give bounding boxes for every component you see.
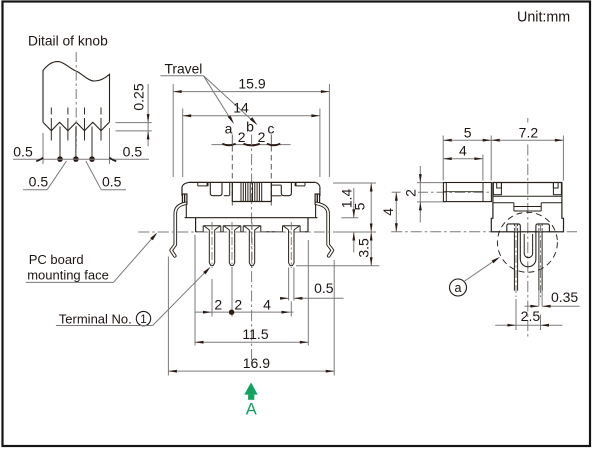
side view knob projection stubs	[417, 182, 446, 184]
svg-text:mounting face: mounting face	[27, 268, 109, 283]
travel position verticals	[231, 135, 233, 145]
detail balloon a	[450, 279, 467, 296]
cover top-right chamfer	[315, 182, 320, 186]
svg-text:0.5: 0.5	[29, 174, 49, 190]
side view dimension 7.2	[562, 136, 564, 181]
svg-text:2: 2	[214, 297, 222, 313]
svg-text:Unit:mm: Unit:mm	[517, 10, 570, 26]
dimension 11.5	[194, 235, 196, 346]
knob block (front view)	[231, 182, 233, 201]
svg-text:Ditail of knob: Ditail of knob	[28, 34, 108, 49]
side view body outline (stepped sides)	[491, 183, 563, 232]
knob detail: hidden tooth lines	[50, 108, 52, 115]
cover dimple tab right	[296, 185, 305, 187]
cover bottom edge	[185, 217, 318, 219]
knob serration stripes	[240, 183, 242, 201]
dimension 3.5	[296, 265, 379, 267]
cover left clip tab	[182, 194, 187, 204]
terminal 4 side extension lines (0.5 width)	[288, 268, 290, 301]
svg-text:0.25: 0.25	[131, 83, 147, 110]
side view knob bar	[443, 183, 491, 202]
right mounting leg	[316, 203, 332, 256]
knob detail: serrated bottom edge (zigzag)	[43, 122, 109, 130]
knob detail: contact dots	[57, 156, 63, 162]
side view top clip right	[553, 183, 561, 195]
side view dimension 4 (top)	[482, 155, 484, 181]
side view peg outer U	[520, 259, 536, 267]
svg-text:0.5: 0.5	[314, 280, 334, 296]
front view main centerline	[251, 135, 253, 361]
knob detail: 0.5 edge arrows	[36, 158, 43, 162]
svg-text:15.9: 15.9	[238, 76, 265, 92]
dimension 0.25 (serration depth)	[116, 122, 152, 124]
side view centerline	[527, 118, 529, 123]
svg-text:14: 14	[233, 100, 249, 116]
svg-text:2.5: 2.5	[521, 308, 541, 324]
dimension 0.5 terminal width	[281, 297, 288, 299]
cover top edge	[189, 181, 315, 183]
svg-text:1: 1	[140, 314, 146, 326]
svg-text:16.9: 16.9	[243, 355, 270, 371]
svg-text:b: b	[246, 119, 254, 135]
cover step right of knob	[271, 184, 281, 186]
svg-text:Travel: Travel	[165, 62, 203, 77]
svg-text:7.2: 7.2	[519, 124, 539, 140]
svg-text:2: 2	[258, 129, 266, 145]
svg-text:0.5: 0.5	[123, 144, 143, 160]
svg-text:4: 4	[380, 208, 396, 216]
dimension 14	[182, 109, 184, 178]
dimension 2.5 (terminal spacing)	[515, 299, 517, 330]
dimension 2 2 4 terminal pitch	[211, 279, 213, 317]
svg-text:a: a	[225, 121, 233, 137]
dimension 0.35 (terminal thickness)	[538, 291, 540, 307]
dimension 15.9	[172, 84, 174, 177]
side view body band lines	[493, 195, 562, 197]
cover dimple tab left	[197, 182, 199, 186]
cover right edge	[319, 187, 321, 196]
left mounting leg	[171, 203, 185, 256]
side view dimension 5	[442, 136, 444, 181]
cover right clip tab	[315, 194, 320, 204]
svg-text:11.5: 11.5	[242, 326, 268, 342]
svg-text:5: 5	[351, 202, 367, 210]
base block	[195, 218, 197, 232]
svg-text:3.5: 3.5	[355, 238, 371, 258]
cover notch left of knob	[224, 195, 230, 197]
side view dimension 2 (knob thickness)	[419, 166, 421, 223]
terminals 1-4 with flares	[202, 226, 204, 232]
base bottom edge segments between terminal notches	[196, 231, 204, 233]
svg-text:2: 2	[234, 297, 242, 313]
side view terminal (right, section)	[538, 232, 540, 291]
svg-text:0.5: 0.5	[13, 144, 33, 160]
cover tick right	[295, 183, 297, 187]
svg-text:PC board: PC board	[29, 252, 84, 267]
travel detent arcs a b c	[222, 144, 235, 146]
cover pocket left	[210, 182, 222, 195]
svg-text:2: 2	[402, 189, 418, 197]
side view top clip left	[493, 183, 501, 195]
knob detail: baseline (0.5 dimension line)	[13, 158, 149, 160]
side view mounting face line	[391, 231, 577, 233]
cover top-left chamfer	[182, 182, 189, 186]
dimension 16.9	[167, 257, 169, 376]
side view dimension 4 (knob center to mounting face)	[392, 191, 401, 193]
dimension 1.4 (inner vertical)	[341, 217, 358, 219]
svg-text:4: 4	[459, 143, 467, 159]
svg-text:2: 2	[238, 129, 246, 145]
svg-text:a: a	[455, 281, 462, 295]
knob detail: body outline with break-line top	[43, 62, 110, 123]
detail circle (dashed)	[497, 212, 557, 272]
PC board mounting face line (dash-dot)	[138, 231, 374, 233]
dimension 5 (front view height)	[333, 182, 376, 184]
travel reference line	[212, 144, 291, 146]
section arrow A (green)	[244, 382, 257, 394]
knob detail: contact teeth lines to dots	[59, 127, 61, 159]
cover left edge	[181, 187, 183, 196]
svg-text:c: c	[267, 121, 274, 137]
svg-text:5: 5	[464, 124, 472, 140]
svg-text:0.5: 0.5	[102, 174, 122, 190]
cover pocket right	[281, 182, 291, 195]
cover left lower edge	[185, 204, 187, 218]
svg-text:A: A	[246, 401, 257, 419]
svg-text:Terminal No.: Terminal No.	[59, 312, 132, 327]
side view peg inner U	[524, 234, 532, 258]
svg-text:4: 4	[263, 297, 271, 313]
hidden terminal dashes inside prongs	[513, 224, 515, 232]
side view terminal (left, section)	[513, 232, 515, 291]
knob detail: extension lines from knob edges	[42, 133, 44, 164]
cover right lower edge	[315, 204, 317, 218]
side view right peg prong	[536, 224, 550, 259]
svg-text:0.35: 0.35	[551, 289, 578, 305]
knob detail: centerline	[75, 52, 77, 146]
side view left peg prong	[507, 224, 521, 259]
side view center boss	[513, 203, 515, 211]
